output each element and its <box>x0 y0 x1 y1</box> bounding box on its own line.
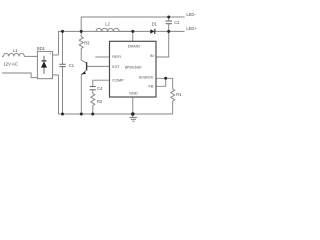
svg-text:IN: IN <box>150 54 154 58</box>
svg-text:REFI: REFI <box>112 55 121 59</box>
svg-text:L2: L2 <box>105 22 110 27</box>
svg-text:LED+: LED+ <box>186 26 197 31</box>
svg-text:C1: C1 <box>69 63 75 68</box>
svg-text:L1: L1 <box>13 48 18 53</box>
svg-text:FB: FB <box>149 84 154 88</box>
svg-text:+: + <box>49 52 51 56</box>
svg-text:LED-: LED- <box>186 12 196 17</box>
svg-text:C4: C4 <box>97 86 103 91</box>
svg-text:R1: R1 <box>176 92 182 97</box>
svg-text:SOURCE: SOURCE <box>139 76 154 80</box>
svg-text:BP9916HD: BP9916HD <box>125 66 142 70</box>
svg-text:C2: C2 <box>174 20 180 25</box>
svg-text:R3: R3 <box>84 40 90 45</box>
svg-text:D1: D1 <box>152 22 158 27</box>
svg-text:DRAIN: DRAIN <box>128 45 140 49</box>
svg-text:GND: GND <box>129 91 138 95</box>
svg-text:12V AC: 12V AC <box>3 61 18 66</box>
svg-text:R2: R2 <box>97 99 103 104</box>
svg-text:COMP: COMP <box>112 78 124 82</box>
svg-text:BD1: BD1 <box>37 46 46 51</box>
svg-text:EXT: EXT <box>112 65 120 69</box>
